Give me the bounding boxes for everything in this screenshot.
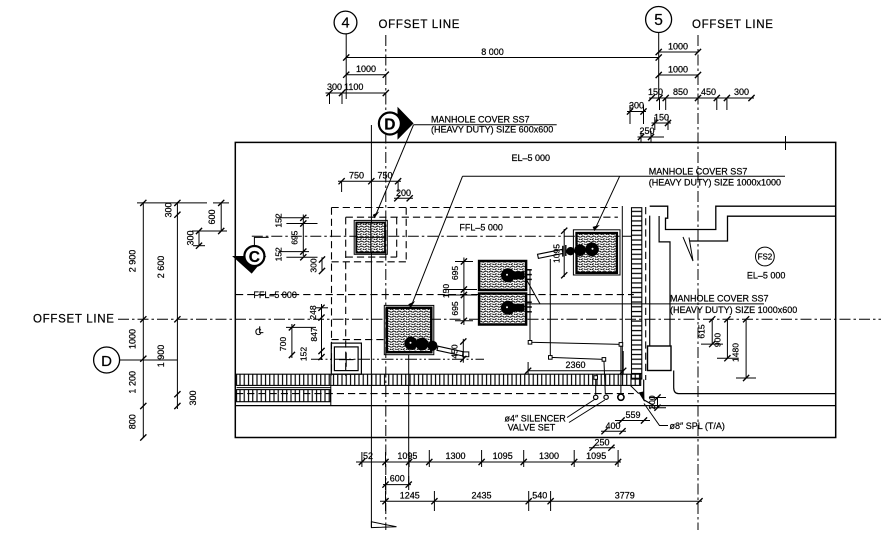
svg-text:FFL–5 000: FFL–5 000 xyxy=(253,290,297,300)
svg-text:D: D xyxy=(101,353,112,370)
svg-text:847: 847 xyxy=(309,327,319,341)
svg-text:615: 615 xyxy=(697,324,707,338)
svg-text:1095: 1095 xyxy=(552,244,562,263)
label manhole cover 600x600 xyxy=(373,114,557,218)
svg-text:1 900: 1 900 xyxy=(156,345,166,368)
label SPL xyxy=(639,391,725,431)
manhole M4 pit 1000x600 upper xyxy=(479,261,526,290)
svg-text:1000: 1000 xyxy=(356,64,376,74)
valve circles xyxy=(594,395,598,399)
left dim chain line 1 xyxy=(128,200,147,441)
dimension 200 xyxy=(394,188,413,202)
CL symbol xyxy=(255,325,264,337)
dimension 8000 xyxy=(343,47,662,61)
svg-text:300: 300 xyxy=(164,202,174,217)
M1 left dims 152 695 152 xyxy=(274,213,318,261)
left dim 600 / 300 small xyxy=(186,200,230,249)
plus square pad xyxy=(331,343,361,374)
svg-text:400: 400 xyxy=(605,421,620,431)
discharge pipe at M2 xyxy=(437,346,464,356)
svg-text:800: 800 xyxy=(128,414,138,429)
svg-text:750: 750 xyxy=(349,170,364,180)
svg-text:52: 52 xyxy=(363,451,373,461)
svg-text:1095: 1095 xyxy=(397,451,417,461)
tick on top wall xyxy=(785,136,787,150)
svg-text:1300: 1300 xyxy=(445,451,465,461)
label silencer valve set xyxy=(505,400,605,433)
svg-text:OFFSET LINE: OFFSET LINE xyxy=(379,19,461,31)
svg-text:300: 300 xyxy=(629,101,644,111)
svg-text:1245: 1245 xyxy=(400,490,420,500)
bottom dim row 2 xyxy=(380,490,703,511)
grid line 4 stem xyxy=(345,34,347,99)
walkway band 2 xyxy=(237,390,331,402)
dims 695 150 695 at M4/M5 xyxy=(441,258,477,326)
svg-text:300: 300 xyxy=(309,258,319,272)
svg-text:695: 695 xyxy=(450,301,460,315)
svg-text:750: 750 xyxy=(377,170,392,180)
pipe riser from M4/M5 pumps xyxy=(530,270,621,395)
svg-text:1000: 1000 xyxy=(668,41,688,51)
svg-text:FFL–5 000: FFL–5 000 xyxy=(459,222,503,232)
svg-text:559: 559 xyxy=(625,410,640,420)
svg-text:MANHOLE COVER SS7: MANHOLE COVER SS7 xyxy=(649,166,748,176)
dim 250 xyxy=(589,437,615,450)
svg-text:2 600: 2 600 xyxy=(156,256,166,279)
svg-text:700: 700 xyxy=(278,337,288,351)
svg-text:3779: 3779 xyxy=(615,490,635,500)
dimension 1000 grid4 xyxy=(343,64,389,78)
svg-text:850: 850 xyxy=(673,87,688,97)
svg-text:ø8″ SPL (T/A): ø8″ SPL (T/A) xyxy=(670,421,725,431)
dashed opening outline outer xyxy=(236,207,646,394)
svg-text:EL–5 000: EL–5 000 xyxy=(747,270,786,280)
manhole M3 pit 1000x1000 xyxy=(577,233,617,273)
dim 300 below M1 dims xyxy=(309,256,326,274)
pump in M4 xyxy=(501,268,532,282)
offset line vertical at grid 4 xyxy=(385,35,387,530)
section line C horizontal dash-dot xyxy=(252,235,631,237)
svg-text:1095: 1095 xyxy=(586,451,606,461)
svg-text:2360: 2360 xyxy=(565,360,585,370)
svg-text:MANHOLE COVER SS7: MANHOLE COVER SS7 xyxy=(431,114,530,124)
sump box at ladder foot xyxy=(648,346,672,371)
svg-text:150: 150 xyxy=(648,87,663,97)
dimension 300 1100 xyxy=(326,82,389,104)
wall inner top right (inner face) xyxy=(689,216,835,241)
dim 600 xyxy=(382,474,411,490)
svg-text:4: 4 xyxy=(341,16,349,32)
manhole M2 pit 1000x1000 xyxy=(387,308,432,352)
dimension 1000 grid5 lower xyxy=(656,64,702,78)
section marker D left circle xyxy=(94,347,178,373)
pump centerline dash-dot-dot xyxy=(311,358,484,360)
svg-text:8 000: 8 000 xyxy=(481,47,504,57)
svg-text:OFFSET LINE: OFFSET LINE xyxy=(692,19,774,31)
label manhole cover 1000x1000 xyxy=(408,166,785,307)
svg-text:EL–5 000: EL–5 000 xyxy=(512,153,551,163)
svg-text:152: 152 xyxy=(274,213,284,227)
svg-text:1100: 1100 xyxy=(344,82,363,92)
section flag bottom xyxy=(371,522,396,528)
dimension 150 850 450 300 xyxy=(648,87,755,110)
svg-text:300: 300 xyxy=(188,390,198,405)
svg-text:2 900: 2 900 xyxy=(128,250,138,273)
svg-text:1300: 1300 xyxy=(539,451,559,461)
svg-text:300: 300 xyxy=(327,82,342,92)
svg-text:1480: 1480 xyxy=(731,343,741,362)
dim 400 xyxy=(601,421,626,434)
grid line 4 circle xyxy=(334,11,357,34)
svg-text:600: 600 xyxy=(390,474,405,484)
wall right room left face xyxy=(659,216,670,346)
svg-text:300: 300 xyxy=(186,230,196,245)
svg-text:MANHOLE COVER SS7: MANHOLE COVER SS7 xyxy=(670,294,769,304)
dimension 250 small xyxy=(638,126,665,143)
svg-text:200: 200 xyxy=(647,395,657,409)
svg-text:152: 152 xyxy=(299,347,309,361)
label manhole cover 1000x600 xyxy=(525,277,798,315)
dim 2360 xyxy=(525,351,626,375)
pump in M2 xyxy=(404,337,437,351)
dimension 150 small xyxy=(652,112,672,130)
manhole M1 cover 600x600 outer frame xyxy=(354,220,387,254)
dimension 1000 grid5 upper xyxy=(656,41,702,55)
dimension 750 750 xyxy=(338,170,401,192)
svg-text:L: L xyxy=(259,325,264,335)
manhole M5 pit 1000x600 lower xyxy=(479,294,526,325)
section line D vertical xyxy=(370,125,372,527)
offset line horizontal xyxy=(118,318,881,320)
walkway band 1 xyxy=(237,374,641,405)
svg-text:(HEAVY DUTY) SIZE 1000x1000: (HEAVY DUTY) SIZE 1000x1000 xyxy=(649,178,781,188)
wall inner top right (outer face with notch) xyxy=(650,206,836,229)
dim 700 xyxy=(278,324,316,358)
svg-text:900: 900 xyxy=(713,333,723,347)
svg-text:C: C xyxy=(249,249,260,266)
bottom dim row 1 xyxy=(356,450,621,467)
svg-text:200: 200 xyxy=(396,188,411,198)
svg-text:152: 152 xyxy=(274,247,284,261)
dim 559 xyxy=(615,410,650,424)
svg-text:1000: 1000 xyxy=(668,64,688,74)
svg-text:540: 540 xyxy=(532,490,547,500)
svg-text:695: 695 xyxy=(450,266,460,280)
svg-text:1095: 1095 xyxy=(493,451,513,461)
svg-text:VALVE SET: VALVE SET xyxy=(508,423,556,433)
dimension 300 small xyxy=(627,101,647,125)
svg-text:1000: 1000 xyxy=(128,329,138,349)
section marker D top xyxy=(379,107,414,140)
manhole M2 pit 1000x1000 frame xyxy=(384,305,434,354)
manhole M1 cover 600x600 xyxy=(356,223,385,253)
ladder xyxy=(622,206,642,379)
svg-text:250: 250 xyxy=(594,437,609,447)
grid line 5 stem xyxy=(658,33,660,100)
svg-text:450: 450 xyxy=(701,87,716,97)
svg-text:(HEAVY DUTY) SIZE 600x600: (HEAVY DUTY) SIZE 600x600 xyxy=(431,124,553,134)
svg-text:695: 695 xyxy=(290,230,300,244)
FS2 circle xyxy=(756,247,775,266)
svg-text:(HEAVY DUTY) SIZE 1000x600: (HEAVY DUTY) SIZE 1000x600 xyxy=(670,305,797,315)
left dim chain line 2 xyxy=(137,200,207,409)
flange at M2 pipe end xyxy=(463,352,469,357)
pump in M3 xyxy=(563,243,599,257)
right dims 615 900 1480 xyxy=(697,316,757,381)
pipe riser from M3 xyxy=(550,259,605,394)
wall outer box xyxy=(235,142,835,437)
wall line right of ladder xyxy=(649,216,651,346)
svg-text:FS2: FS2 xyxy=(758,253,773,262)
svg-text:150: 150 xyxy=(441,284,451,298)
manhole M3 pit 1000x1000 frame xyxy=(573,230,620,275)
dim 450 at M2 pipe xyxy=(450,338,467,362)
svg-text:1 200: 1 200 xyxy=(128,371,138,394)
suction pipe at M3 xyxy=(538,249,563,258)
pipe drop from M2 pump xyxy=(408,355,410,485)
pump in M5 xyxy=(501,301,532,315)
dim 200 at wall corner xyxy=(647,394,666,410)
wall bottom right inner ledge xyxy=(674,371,836,394)
wall bottom inner face full width xyxy=(235,405,835,407)
svg-text:D: D xyxy=(384,116,395,133)
svg-text:2435: 2435 xyxy=(471,490,491,500)
dim 1095 at M3 xyxy=(552,228,568,279)
wall stub below ladder xyxy=(644,380,655,407)
grid line 5 circle xyxy=(646,7,672,33)
svg-text:250: 250 xyxy=(640,126,655,136)
dims 248 847 152 xyxy=(299,304,329,361)
V mark leader at wall notch xyxy=(683,237,693,261)
svg-text:248: 248 xyxy=(308,305,318,319)
svg-text:150: 150 xyxy=(654,112,669,122)
svg-text:OFFSET LINE: OFFSET LINE xyxy=(33,314,115,326)
section marker C left xyxy=(232,237,269,273)
svg-text:450: 450 xyxy=(450,344,460,358)
svg-text:600: 600 xyxy=(207,209,217,224)
svg-text:5: 5 xyxy=(654,12,663,29)
pipe drop to valve 1 xyxy=(595,378,597,395)
offset line vertical at grid 5 xyxy=(697,35,699,530)
svg-text:300: 300 xyxy=(734,87,749,97)
